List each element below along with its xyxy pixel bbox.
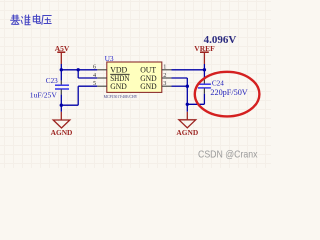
wire pin4 jog [78, 70, 97, 78]
svg-text:3: 3 [163, 80, 166, 87]
wire C24 bottom return [187, 94, 204, 105]
node junction C24 return [186, 103, 189, 106]
wire stub up [203, 64, 205, 70]
node junction pin4 jog [77, 68, 80, 71]
svg-text:6: 6 [93, 64, 96, 71]
capacitor C24 [198, 79, 248, 97]
node junction A5V/VDD [60, 68, 63, 71]
wire stub down [60, 105, 62, 112]
char 基 [10, 15, 20, 25]
svg-text:5: 5 [93, 80, 96, 87]
svg-text:GND: GND [110, 82, 127, 91]
svg-text:4.096V: 4.096V [204, 34, 237, 46]
pin 3 [162, 85, 172, 87]
IC U3 (MCP1501 voltage reference) [104, 54, 162, 99]
char 准 [21, 15, 30, 25]
wire pin2 to ground rail [172, 78, 188, 112]
svg-text:1uF/25V: 1uF/25V [30, 91, 58, 100]
annotation red ellipse [195, 72, 260, 117]
node junction VREF/OUT/C24 [203, 68, 206, 71]
svg-text:C23: C23 [46, 77, 58, 85]
svg-text:CSDN @Cranx: CSDN @Cranx [198, 149, 258, 161]
capacitor C23 [30, 77, 69, 99]
wire pin1 to VREF node [172, 69, 205, 71]
wire pin6 [61, 69, 97, 71]
char 压 [42, 16, 52, 25]
pin 4 [97, 77, 107, 79]
svg-text:AGND: AGND [51, 128, 73, 137]
wire pin3 [172, 85, 188, 87]
svg-text:U3: U3 [105, 54, 114, 63]
svg-text:2: 2 [163, 72, 166, 79]
svg-text:MCP1501T-40E/CHY: MCP1501T-40E/CHY [104, 94, 139, 99]
ground AGND left [51, 112, 73, 137]
svg-text:1: 1 [163, 64, 166, 71]
title 基准电压 (drawn strokes) [10, 14, 51, 25]
svg-text:AGND: AGND [176, 128, 198, 137]
wire pin5 to ground [61, 86, 97, 105]
pin 2 [162, 77, 172, 79]
power port A5V [55, 44, 70, 64]
power port VREF [194, 44, 215, 64]
pin 1 [162, 69, 172, 71]
pin 6 [97, 69, 107, 71]
node junction C23/AGND [60, 104, 63, 107]
wire VREF node down to C24 [203, 70, 205, 80]
svg-text:4: 4 [93, 72, 96, 79]
node junction pin3 [186, 85, 189, 88]
wire A5V down [60, 64, 62, 81]
svg-text:C24: C24 [212, 79, 224, 87]
wire C23 to gnd [60, 95, 62, 106]
char 电 [33, 14, 40, 23]
pin 5 [97, 85, 107, 87]
svg-text:220pF/50V: 220pF/50V [210, 88, 247, 97]
svg-text:GND: GND [140, 82, 157, 91]
ground AGND right [176, 112, 198, 137]
